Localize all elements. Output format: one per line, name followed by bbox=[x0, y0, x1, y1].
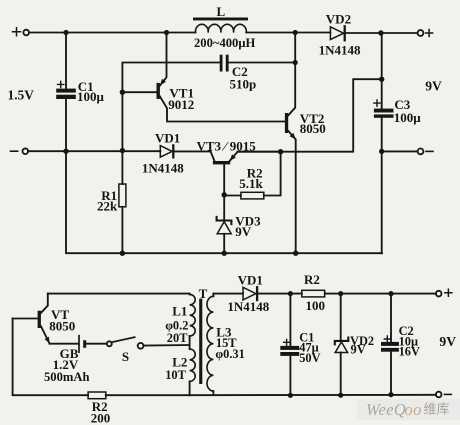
svg-text:200~400μH: 200~400μH bbox=[194, 36, 255, 50]
svg-text:维库: 维库 bbox=[424, 402, 450, 417]
inductor L bbox=[193, 18, 248, 33]
wire mid rail right bbox=[238, 79, 382, 152]
svg-text:20T: 20T bbox=[167, 331, 188, 345]
zener VD3 bbox=[217, 217, 232, 253]
wire VT1 base column bbox=[122, 63, 220, 151]
wire switch to tap bbox=[144, 344, 190, 347]
svg-text:100: 100 bbox=[306, 298, 326, 313]
svg-text:1.5V: 1.5V bbox=[8, 87, 35, 102]
wire bottom output rail bbox=[190, 394, 436, 396]
wire R2 to terminal bbox=[325, 293, 436, 295]
battery GB bbox=[79, 336, 107, 353]
svg-text:VT3 ∕ 9015: VT3 ∕ 9015 bbox=[197, 138, 257, 153]
svg-text:1N4148: 1N4148 bbox=[227, 299, 269, 314]
svg-text:9012: 9012 bbox=[168, 97, 194, 112]
svg-text:100μ: 100μ bbox=[394, 110, 422, 125]
svg-text:1N4148: 1N4148 bbox=[319, 43, 361, 58]
svg-text:9V: 9V bbox=[425, 79, 442, 94]
wire VD1 to R2 bbox=[258, 293, 302, 295]
svg-text:50V: 50V bbox=[299, 351, 320, 365]
capacitor C2 10u bbox=[381, 294, 399, 395]
wire to output minus terminal bbox=[382, 150, 418, 152]
watermark WeeQoo bbox=[357, 399, 460, 420]
transistor VT1 (9012 PNP) bbox=[122, 33, 285, 122]
node VT1-emitter-rail bbox=[164, 30, 169, 35]
capacitor C3 bbox=[374, 33, 394, 253]
svg-text:10T: 10T bbox=[165, 368, 186, 382]
transformer winding L2 bbox=[190, 349, 196, 381]
svg-text:VD2: VD2 bbox=[326, 12, 351, 27]
svg-text:16V: 16V bbox=[399, 345, 420, 359]
switch S bbox=[107, 337, 144, 348]
wire L1 top stub bbox=[189, 293, 191, 296]
capacitor C2 bbox=[220, 55, 296, 72]
svg-text:VD1: VD1 bbox=[155, 130, 180, 145]
wire top rail right bbox=[346, 32, 418, 34]
svg-text:500mAh: 500mAh bbox=[44, 370, 89, 384]
node C1-bottom bbox=[288, 393, 293, 398]
wire ground drop left bbox=[66, 151, 382, 253]
node VT2-collector-rail bbox=[293, 30, 298, 35]
capacitor C1 47u bbox=[280, 294, 299, 396]
node C1-top bbox=[63, 30, 68, 35]
terminal + (bottom-right output) bbox=[436, 289, 452, 296]
svg-text:9V: 9V bbox=[439, 334, 456, 349]
node C2-top (bottom ckt) bbox=[388, 291, 393, 296]
svg-text:9V: 9V bbox=[235, 224, 252, 239]
resistor R2 5.1k bbox=[224, 152, 280, 199]
capacitor C1 bbox=[56, 33, 76, 152]
node VD2-bottom bbox=[338, 393, 343, 398]
node C1-top (bottom ckt) bbox=[288, 291, 293, 296]
node C2-bottom bbox=[388, 392, 393, 397]
wire L3 top to VD1 bbox=[213, 293, 243, 295]
transformer winding L3 bbox=[207, 294, 213, 396]
node VD2-top (bottom ckt) bbox=[338, 291, 343, 296]
svg-text:1N4148: 1N4148 bbox=[142, 161, 184, 176]
wire mid rail left bbox=[28, 150, 160, 152]
svg-text:510p: 510p bbox=[230, 76, 257, 91]
svg-text:5.1k: 5.1k bbox=[239, 176, 263, 191]
svg-text:φ0.31: φ0.31 bbox=[215, 347, 244, 361]
transistor VT2 (8050 NPN) bbox=[285, 33, 296, 254]
node output-plus bbox=[378, 30, 383, 35]
wire VD1 to VT3 bbox=[174, 150, 210, 152]
node R1-top bbox=[120, 148, 125, 153]
node R1-bottom bbox=[120, 251, 125, 256]
svg-text:8050: 8050 bbox=[49, 318, 75, 333]
transistor VT (8050 NPN) bbox=[13, 294, 50, 344]
resistor R2 200 bbox=[88, 392, 190, 399]
svg-text:T: T bbox=[199, 286, 208, 301]
node VD3-bottom bbox=[222, 251, 227, 256]
svg-text:VD1: VD1 bbox=[238, 273, 263, 288]
wire emitter to battery bbox=[50, 343, 78, 345]
diode VD2 bbox=[330, 26, 344, 40]
node C3-top-tap bbox=[379, 77, 384, 82]
transformer winding L1 bbox=[190, 294, 196, 336]
wire base column / bottom left bbox=[13, 319, 89, 396]
terminal + (top-right output) bbox=[418, 30, 433, 37]
wire top rail left bbox=[29, 32, 196, 34]
wire L2 bottom drop bbox=[189, 381, 191, 395]
svg-text:100μ: 100μ bbox=[77, 89, 105, 104]
transformer core bbox=[199, 299, 202, 384]
svg-text:L: L bbox=[217, 4, 226, 19]
svg-text:9V: 9V bbox=[351, 343, 366, 357]
node VT2-emitter-bottom bbox=[293, 251, 298, 256]
svg-text:L1: L1 bbox=[172, 303, 187, 318]
terminal - (bottom-right output) bbox=[436, 392, 451, 398]
node output-minus bbox=[379, 149, 384, 154]
svg-text:oo: oo bbox=[405, 400, 422, 419]
node C2-right bbox=[293, 60, 298, 65]
diode VD1 (bottom) bbox=[243, 287, 257, 300]
svg-text:200: 200 bbox=[91, 410, 111, 425]
svg-text:8050: 8050 bbox=[300, 121, 326, 136]
terminal - (left input) bbox=[11, 148, 29, 154]
resistor R1 bbox=[119, 151, 126, 254]
wire tap segment bbox=[189, 336, 191, 349]
node VT1-base bbox=[120, 90, 125, 95]
terminal - (right output) bbox=[418, 149, 433, 155]
diode VD1 bbox=[160, 145, 173, 157]
resistor R2 100 bbox=[302, 290, 325, 297]
node battery-minus bbox=[63, 149, 68, 154]
svg-text:WeeQ: WeeQ bbox=[366, 400, 406, 419]
wire top rail mid bbox=[246, 32, 330, 34]
transistor VT3 (9015 PNP) bbox=[211, 151, 281, 220]
svg-text:S: S bbox=[122, 349, 129, 364]
svg-text:22k: 22k bbox=[97, 199, 118, 214]
terminal + (top-left input) bbox=[13, 28, 30, 36]
node VT3-emitter bbox=[278, 149, 283, 154]
svg-text:R2: R2 bbox=[304, 272, 320, 287]
node VT3-base-R2 bbox=[222, 192, 227, 197]
zener VD2 (bottom) bbox=[335, 294, 349, 396]
wire collector top bbox=[48, 293, 190, 295]
